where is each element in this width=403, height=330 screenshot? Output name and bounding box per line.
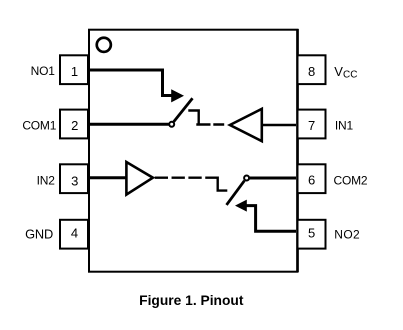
wire IN1 from inverter U2 to pin 7 (262, 124, 296, 127)
pin 5 box (298, 220, 326, 249)
pin 1 indicator circle (97, 38, 111, 52)
control tap of SW1 (188, 111, 198, 125)
svg-text:8: 8 (308, 64, 315, 79)
wire COM1 from pin 2 to switch SW1 pole (89, 123, 169, 126)
wire NO1 from pin 1 to switch SW1 (89, 70, 172, 96)
wire NO2 from switch SW2 to pin 5 (247, 206, 297, 232)
svg-text:7: 7 (308, 118, 315, 133)
dashed control line from inverter U2 to SW1 (196, 123, 224, 125)
IC body right edge (thicker) (296, 29, 299, 272)
inverter U2 triangle (IN1 control) (230, 109, 262, 141)
switch SW1 blade (174, 98, 193, 122)
svg-text:COM1: COM1 (22, 119, 56, 133)
pin 2 box (60, 110, 88, 139)
switch SW1 pole circle (169, 122, 174, 127)
IC body U1 (89, 30, 298, 272)
pin 3 box (60, 164, 88, 193)
svg-text:COM2: COM2 (334, 174, 368, 188)
switch SW2 pole circle (244, 176, 249, 181)
svg-text:1: 1 (71, 64, 78, 79)
svg-text:4: 4 (71, 225, 78, 240)
pin 6 box (298, 164, 326, 193)
svg-text:IN1: IN1 (335, 119, 354, 133)
pin 8 box (298, 55, 326, 84)
pin 1 box (60, 55, 88, 84)
svg-text:NO1: NO1 (31, 64, 56, 78)
svg-text:IN2: IN2 (37, 174, 56, 188)
control tap of SW2 (218, 177, 228, 191)
svg-text:VCC: VCC (334, 64, 357, 80)
svg-text:GND: GND (25, 227, 53, 242)
svg-text:2: 2 (71, 118, 78, 133)
wire COM2 from switch SW2 pole to pin 6 (250, 177, 296, 180)
switch SW2 blade (227, 181, 245, 205)
pin 4 box (60, 220, 88, 249)
wire IN2 from pin 3 to buffer U3 (89, 176, 126, 179)
arrowhead on NO1 wire pointing at SW1 blade (171, 89, 184, 102)
svg-text:5: 5 (308, 225, 315, 240)
svg-text:Figure 1. Pinout: Figure 1. Pinout (139, 293, 244, 308)
svg-text:6: 6 (308, 173, 315, 188)
pin 7 box (298, 110, 326, 139)
buffer U3 triangle (IN2 control) (126, 162, 152, 195)
dashed control line from buffer U3 to SW2 (155, 176, 218, 178)
svg-text:NO2: NO2 (334, 228, 360, 242)
arrowhead on NO2 wire pointing at SW2 blade (235, 200, 247, 212)
svg-text:3: 3 (71, 173, 78, 188)
